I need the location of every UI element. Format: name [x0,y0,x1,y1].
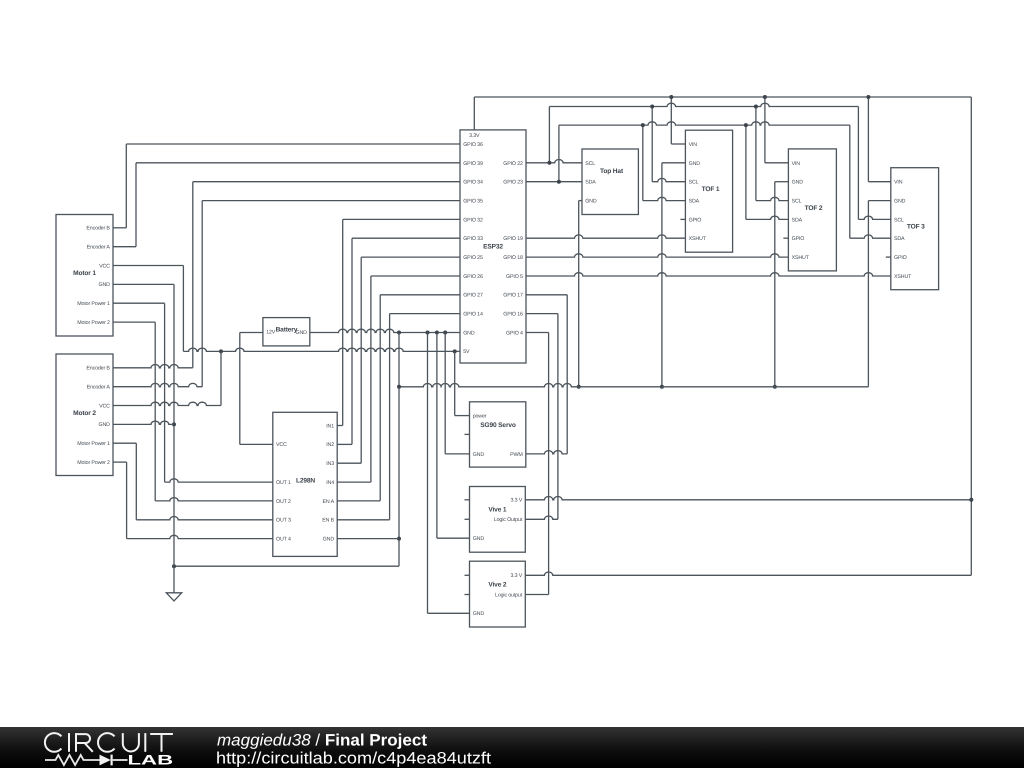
servo U7 (SG90 Servo) [470,402,526,467]
svg-text:XSHUT: XSHUT [894,274,912,280]
svg-text:GND: GND [473,611,485,617]
motor driver U2 (L298N) [273,412,337,556]
wire battery 12V to L298N VCC [240,332,263,334]
wire Vive1 GND to ESP32 GND row [437,537,470,539]
svg-text:ESP32: ESP32 [483,244,503,251]
svg-text:SG90 Servo: SG90 Servo [480,422,516,429]
svg-text:SCL: SCL [792,199,802,205]
wire Motor1 MotorPower1 to L298N OUT1 [113,302,165,304]
battery BAT1 (12V) [263,318,310,346]
svg-text:GND: GND [689,161,701,167]
svg-text:Encoder B: Encoder B [86,366,110,372]
wire GND drop from ESP32 GND row to ground net [398,333,400,567]
wire GPIO32 to L298N IN1 [343,218,460,220]
no-connect stubs Vive1 left pins [465,499,470,501]
wire GPIO16 to Vive1 Logic Output [526,313,558,315]
svg-text:3.3V: 3.3V [469,133,480,139]
svg-text:Encoder B: Encoder B [86,226,110,232]
svg-text:Vive 2: Vive 2 [488,582,507,589]
svg-text:Motor Power 2: Motor Power 2 [77,460,110,466]
wire TOF1 VIN from 3.3V bus [670,97,672,144]
svg-text:SCL: SCL [894,217,904,223]
svg-text:L298N: L298N [296,478,315,485]
svg-text:PWM: PWM [510,452,523,458]
sensor U8 (Vive 1) [470,487,526,553]
wire GPIO34 to Motor2 Encoder B [193,181,460,183]
svg-text:Top Hat: Top Hat [600,168,624,175]
motor M2 (Motor 2) [56,354,113,476]
svg-text:GPIO 26: GPIO 26 [463,274,483,280]
no-connect stub TOF1 GPIO [680,218,685,220]
svg-text:GPIO 17: GPIO 17 [503,293,523,299]
svg-text:TOF 2: TOF 2 [805,205,823,212]
svg-text:SDA: SDA [894,236,905,242]
svg-text:VCC: VCC [276,442,287,448]
svg-text:IN3: IN3 [326,461,334,467]
svg-text:GPIO 23: GPIO 23 [503,180,523,186]
i2c hat U3 (Top Hat) [582,149,638,215]
svg-text:GPIO 34: GPIO 34 [463,180,483,186]
junction on GPIO23 wire [557,180,561,184]
svg-text:GPIO 19: GPIO 19 [503,236,523,242]
wire GPIO22 to Top Hat SCL [526,160,582,163]
wire ground link row to ground symbol [174,565,399,567]
wire 3.3V bus (top horizontal line 1) [474,96,971,98]
wire Motor2 VCC to 5V rail [113,402,221,405]
sensor U6 (TOF 3) [891,168,939,290]
svg-text:IN2: IN2 [326,442,334,448]
wire battery GND to ESP32 GND [310,329,460,332]
svg-text:GND: GND [98,282,110,288]
wire TOF2 SDA from SDA bus [745,125,747,219]
no-connect stub TOF2 GPIO [783,237,788,239]
wire TOF2 VIN from 3.3V bus [764,97,766,163]
wire Motor1 GND to ground column [113,283,174,285]
svg-text:GPIO 16: GPIO 16 [503,312,523,318]
svg-text:GPIO 39: GPIO 39 [463,161,483,167]
svg-text:VIN: VIN [689,142,698,148]
svg-text:GND: GND [323,537,335,543]
wire SDA bus drop to GPIO23 node [558,125,560,182]
wire Motor2 GND to ground column [113,421,174,424]
wire Vive1 3.3V from right-side supply column [525,497,971,500]
svg-text:SCL: SCL [689,180,699,186]
wire GPIO27 to L298N EN A [380,294,460,296]
svg-text:OUT 1: OUT 1 [276,480,291,486]
svg-text:GPIO 32: GPIO 32 [463,217,483,223]
no-connect stub SG90 middle pin [465,433,470,435]
svg-text:GPIO 35: GPIO 35 [463,199,483,205]
svg-text:http://circuitlab.com/c4p4ea84: http://circuitlab.com/c4p4ea84utzft [216,750,491,768]
svg-text:SDA: SDA [792,217,803,223]
wire GPIO14 to L298N EN B [390,313,460,315]
wire TOF1 SDA from SDA bus [642,125,644,201]
svg-text:OUT 4: OUT 4 [276,537,291,543]
wire GPIO26 to L298N IN4 [371,275,460,277]
no-connect stubs Vive2 left pins [465,574,470,576]
wire TOF1 GND down to GND bus [662,162,686,164]
wire right-side 3.3V vertical down to Vive supplies [970,97,972,575]
wire Top Hat GND down to GND bus [579,200,582,202]
CircuitLab logo wordmark CIRCUIT (drawn) [45,733,173,752]
wire Motor2 MotorPower1 to L298N OUT3 [113,442,136,444]
wire TOF3 SDA from SDA bus [849,125,851,238]
svg-text:SCL: SCL [585,161,595,167]
sensor U9 (Vive 2) [470,561,526,627]
wire TOF3 VIN from 3.3V bus [867,97,869,182]
wire Motor1 VCC to 5V rail [113,265,183,267]
svg-text:power: power [473,414,487,420]
svg-text:Motor Power 1: Motor Power 1 [77,441,110,447]
svg-text:TOF 3: TOF 3 [907,224,925,231]
junction on GPIO22 wire [547,161,551,165]
svg-text:GND: GND [792,180,804,186]
wire TOF3 GND down to GND bus [868,200,890,202]
svg-text:Logic Output: Logic Output [494,517,523,523]
svg-text:OUT 2: OUT 2 [276,499,291,505]
wire GPIO4 to Vive2 Logic output [526,332,549,334]
svg-text:VCC: VCC [99,403,110,409]
svg-text:TOF 1: TOF 1 [702,186,720,193]
motor M1 (Motor 1) [56,215,113,337]
svg-text:GND: GND [473,536,485,542]
svg-text:IN1: IN1 [326,423,334,429]
wire SDA bus (top horizontal line 3) [559,122,850,125]
svg-text:SDA: SDA [689,199,700,205]
svg-text:GND: GND [585,199,597,205]
svg-text:XSHUT: XSHUT [792,255,810,261]
svg-text:3.3 V: 3.3 V [510,573,522,579]
wire TOF1 SCL from SCL bus [651,107,653,182]
svg-text:GPIO 4: GPIO 4 [506,330,523,336]
svg-text:GPIO 25: GPIO 25 [463,255,483,261]
wire 3.3V stub from ESP32 top pin up to 3.3V bus [473,97,475,130]
wire 5V rail from ESP32 5V pin [183,348,460,351]
svg-text:GPIO: GPIO [689,217,702,223]
svg-text:EN B: EN B [322,518,334,524]
svg-text:GPIO 33: GPIO 33 [463,236,483,242]
logo diode [100,755,111,766]
wire GPIO39 to Motor1 Encoder A [136,162,460,164]
wire SCL bus drop to GPIO22 node [548,107,550,163]
wire GPIO19 to TOF1 XSHUT [526,235,685,238]
svg-text:GPIO 22: GPIO 22 [503,161,523,167]
svg-text:GPIO: GPIO [792,236,805,242]
wire GPIO5 to TOF3 XSHUT [526,273,891,276]
svg-text:GPIO 14: GPIO 14 [463,312,483,318]
svg-text:EN A: EN A [323,499,335,505]
wire GPIO18 to TOF2 XSHUT [526,254,788,257]
wire Vive2 3.3V from right-side supply column [525,572,971,575]
wire servo power from 5V rail [454,351,456,415]
microcontroller U1 (ESP32) [460,130,526,363]
svg-text:SDA: SDA [585,180,596,186]
svg-text:VIN: VIN [894,180,903,186]
svg-text:OUT 3: OUT 3 [276,518,291,524]
svg-text:VCC: VCC [99,263,110,269]
svg-text:GPIO 36: GPIO 36 [463,142,483,148]
wire L298N GND to ground net [337,538,399,540]
wire TOF2 SCL from SCL bus [755,107,757,201]
svg-text:GPIO: GPIO [894,255,907,261]
svg-text:GPIO 18: GPIO 18 [503,255,523,261]
wire GPIO25 to L298N IN3 [361,256,460,258]
svg-text:XSHUT: XSHUT [689,236,707,242]
svg-text:GND: GND [894,199,906,205]
svg-text:Logic output: Logic output [495,592,523,598]
svg-text:Motor 1: Motor 1 [73,270,96,277]
svg-text:GPIO 27: GPIO 27 [463,293,483,299]
wire TOF3 SCL from SCL bus [857,107,859,220]
ground symbol [166,593,181,601]
wire GPIO35 to Motor2 Encoder A [202,200,460,202]
wire TOF2 GND down to GND bus [775,181,789,183]
svg-text:Motor Power 2: Motor Power 2 [77,320,110,326]
svg-text:maggiedu38 / Final Project: maggiedu38 / Final Project [217,732,428,750]
wire GND bus (middle horizontal) [399,384,868,387]
wire Vive2 GND to ESP32 GND row [428,612,470,614]
sensor U4 (TOF 1) [685,130,732,252]
wire Motor2 MotorPower2 to L298N OUT4 [113,461,127,463]
svg-text:VIN: VIN [792,161,801,167]
wire SCL bus (top horizontal line 2) [549,103,858,106]
wire Motor1 MotorPower2 to L298N OUT2 [113,321,155,323]
svg-text:Encoder A: Encoder A [87,385,111,391]
svg-text:Encoder A: Encoder A [87,245,111,251]
wire GPIO36 to Motor1 Encoder B [126,143,460,145]
svg-text:IN4: IN4 [326,480,334,486]
sensor U5 (TOF 2) [788,149,836,271]
svg-text:3.3 V: 3.3 V [510,498,522,504]
svg-text:Battery: Battery [276,327,298,334]
wire GPIO23 to Top Hat SDA [526,181,582,183]
svg-text:12V: 12V [266,330,276,336]
wire servo GND to ESP32 GND row [445,453,469,455]
wire GPIO17 to servo PWM [526,294,567,296]
svg-text:Motor 2: Motor 2 [73,410,96,417]
logo resistor zigzag [45,755,100,765]
svg-text:GND: GND [98,422,110,428]
svg-text:GND: GND [463,330,475,336]
svg-text:LAB: LAB [128,752,174,767]
no-connect stub TOF3 GPIO [886,256,891,258]
svg-text:GPIO 5: GPIO 5 [506,274,523,280]
wire GPIO33 to L298N IN2 [352,237,460,239]
svg-text:GND: GND [473,452,485,458]
svg-text:Motor Power 1: Motor Power 1 [77,301,110,307]
svg-text:Vive 1: Vive 1 [488,507,507,514]
svg-text:5V: 5V [463,349,470,355]
ground column vertical [173,284,175,592]
